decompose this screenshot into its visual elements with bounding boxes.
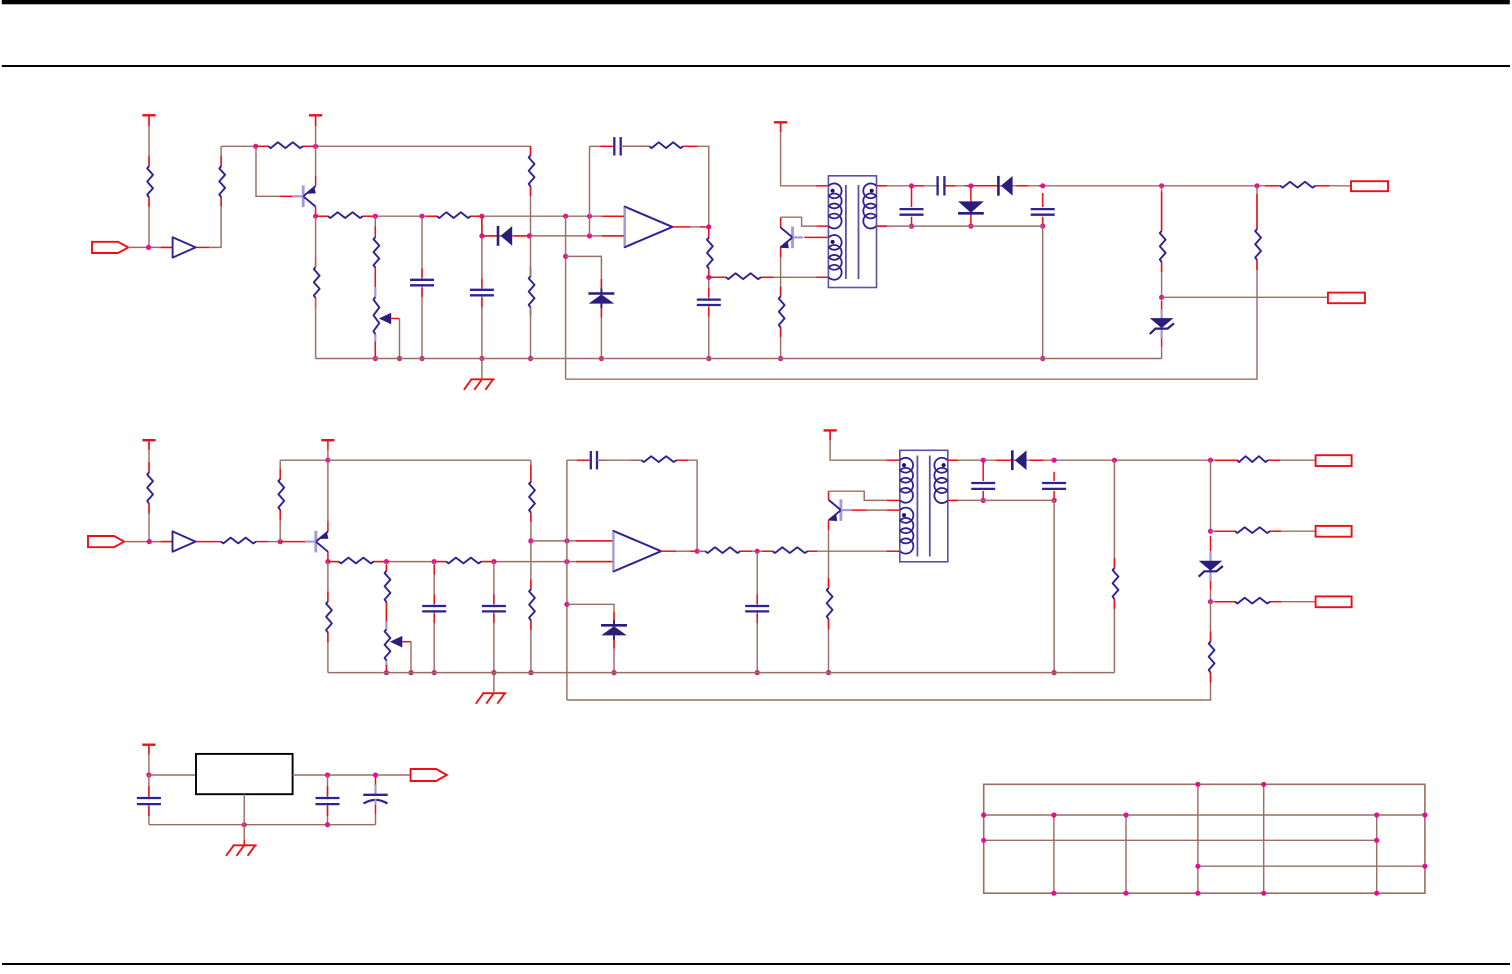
- wire R8 branch: [530, 236, 532, 359]
- wire top rail to R6 branch: [221, 146, 530, 236]
- junction reg gnd: [242, 822, 247, 827]
- wire Q4 base: [852, 509, 900, 511]
- resistor R29: [1112, 568, 1118, 599]
- junction grid: [981, 838, 986, 843]
- wire Q2 base: [804, 236, 829, 238]
- pins secondary2: [947, 459, 1280, 461]
- diode D1: [498, 226, 512, 246]
- wire pot2 branch: [385, 562, 387, 673]
- pins U3: [161, 541, 221, 543]
- wire GND1 stem: [481, 359, 483, 380]
- wire R16 top: [315, 216, 317, 267]
- junction feedback out: [1159, 295, 1164, 300]
- zener diode DZ2: [1150, 309, 1174, 338]
- wire C11 branch: [756, 551, 758, 672]
- pin U4 -in: [576, 561, 613, 563]
- pins R5: [426, 215, 482, 217]
- pin U2 out: [672, 226, 708, 228]
- buffer U3: [173, 531, 196, 551]
- resistor R30: [1237, 456, 1268, 462]
- wire secondary bottom net: [876, 226, 1043, 358]
- op-amp U4: [613, 531, 661, 572]
- junction R5 right: [479, 214, 484, 219]
- wire zener branch 2: [567, 604, 614, 672]
- pin U4 +in: [576, 540, 613, 542]
- ground GND1: [464, 379, 495, 390]
- wire grid H2: [984, 814, 1425, 816]
- voltage regulator U5: [196, 754, 293, 794]
- wire feedback left 2: [567, 459, 591, 461]
- capacitor C14: [316, 798, 340, 804]
- wire feedback left: [590, 145, 615, 147]
- pin U4 out: [660, 550, 705, 552]
- resistor R10: [707, 238, 713, 269]
- resistor R26: [705, 547, 740, 553]
- junction C9 bottom: [491, 670, 496, 675]
- pins R32: [1215, 601, 1281, 603]
- junction rail gnd: [479, 356, 484, 361]
- junction C8 top: [432, 559, 437, 564]
- wire ground rail top circuit: [316, 358, 1162, 360]
- pins R2: [220, 156, 222, 206]
- wire grid H3: [984, 839, 1377, 841]
- wire C16 branch: [148, 775, 150, 825]
- resistor R5: [437, 212, 471, 218]
- wire Q1 collector: [315, 146, 317, 175]
- junction DZ1 bottom: [599, 356, 604, 361]
- capacitor C6: [900, 209, 924, 215]
- junction grid: [1123, 812, 1128, 817]
- wire feedback vertical: [589, 146, 591, 236]
- capacitor C15 (polarized): [363, 795, 387, 805]
- capacitor C8: [422, 606, 446, 611]
- junction noninv 2: [528, 538, 533, 543]
- junction R10 bottom: [706, 275, 711, 280]
- pins C14: [327, 786, 329, 816]
- potentiometer RV2: [384, 629, 402, 660]
- wire grid V4: [1197, 784, 1199, 893]
- wire C14 branch: [327, 775, 329, 825]
- ground GND2: [476, 693, 507, 704]
- resistor R13: [1159, 231, 1165, 262]
- resistor R4: [328, 212, 363, 218]
- junction grid: [1051, 891, 1056, 896]
- transistor Q2: [780, 227, 803, 249]
- junction zener tee: [563, 254, 568, 259]
- pin VCC2: [315, 115, 317, 126]
- wire R33 branch: [567, 602, 1211, 700]
- wire VCC4 to input node 2: [148, 440, 150, 541]
- pins R26 R27: [740, 550, 900, 552]
- pin Q1 base: [280, 195, 293, 197]
- junction C9 top: [491, 559, 496, 564]
- wire GND3 stem: [243, 825, 245, 846]
- resistor R16: [313, 267, 319, 298]
- wire C1 branch: [421, 216, 423, 358]
- junction C4 bottom: [706, 356, 711, 361]
- wire VCC7: [148, 745, 150, 775]
- connector J3: [1316, 455, 1352, 466]
- capacitor C13: [1042, 483, 1066, 489]
- wire reg in: [149, 774, 196, 776]
- junction C8 bottom: [432, 670, 437, 675]
- pins U1: [161, 246, 209, 248]
- capacitor C10: [591, 451, 597, 469]
- junction secondary2 gnd: [1052, 670, 1057, 675]
- pins C4: [708, 288, 710, 316]
- resistor R31: [1235, 527, 1270, 533]
- wire pot branch: [374, 216, 376, 358]
- junction grid: [1195, 782, 1200, 787]
- wire C13 branch: [1053, 472, 1055, 501]
- junction C14 bottom: [325, 822, 330, 827]
- capacitor C2: [470, 290, 494, 296]
- wire drive net 2: [697, 550, 900, 552]
- wire U4 out: [676, 550, 690, 552]
- wire drive net: [709, 276, 829, 278]
- resistor R24: [529, 589, 535, 620]
- pins C11: [756, 595, 758, 624]
- junction tap2: [1208, 599, 1213, 604]
- wire reg out: [293, 774, 411, 776]
- resistor R18: [221, 538, 256, 544]
- ground GND3: [226, 845, 257, 856]
- resistor R19: [278, 479, 284, 510]
- pins R10: [708, 227, 710, 277]
- pins RV2 wiper ends: [385, 621, 387, 665]
- capacitor C3: [614, 137, 620, 155]
- wire VCC2: [315, 115, 317, 146]
- wire feedback right: [697, 146, 709, 227]
- pins secondary: [876, 185, 1329, 187]
- junction D2 bottom: [968, 224, 973, 229]
- junction Q3 emitter: [325, 559, 330, 564]
- junction D2 top: [968, 183, 973, 188]
- junction U4 output: [695, 549, 700, 554]
- input port P1: [92, 242, 128, 253]
- pins R34: [327, 592, 329, 643]
- capacitor C7: [1031, 209, 1055, 215]
- junction grid: [1261, 891, 1266, 896]
- junction secondary gnd: [1040, 356, 1045, 361]
- wire grid V2: [1053, 815, 1055, 893]
- junction U2 output: [706, 224, 711, 229]
- wire grid H4: [1198, 865, 1425, 867]
- wire C10-R25: [597, 459, 642, 461]
- input port P2: [88, 536, 124, 547]
- junction grid: [1195, 864, 1200, 869]
- junction C1 top: [419, 214, 424, 219]
- power symbol VCC6: [824, 429, 837, 431]
- pins RV1 wiper ends: [374, 287, 376, 341]
- wire input node: [128, 246, 172, 248]
- resistor R8: [528, 276, 534, 307]
- wire C3-R9: [621, 145, 650, 147]
- junction R15 top: [1254, 183, 1259, 188]
- wire input node 2: [124, 541, 172, 543]
- wire R16 bottom: [315, 298, 317, 359]
- wire rail2 left: [327, 562, 329, 673]
- footer rule: [2, 963, 1510, 965]
- pin T2 pin4: [947, 499, 958, 501]
- pins C3 R9: [600, 145, 697, 147]
- wire C8 branch: [433, 562, 435, 673]
- junction Q1 emitter: [313, 214, 318, 219]
- resistor R32: [1235, 598, 1270, 604]
- junction R12 bottom: [778, 356, 783, 361]
- wire DZ2 branch: [1161, 301, 1163, 359]
- resistor R1: [147, 166, 153, 197]
- power symbol VCC7: [142, 744, 155, 746]
- resistor R20: [339, 558, 374, 564]
- resistor R6: [373, 237, 379, 267]
- pins R16: [315, 257, 317, 308]
- junction feedback noninv: [587, 214, 592, 219]
- title bar: [2, 0, 1510, 4]
- junction grid: [1195, 891, 1200, 896]
- junction C5 top: [909, 183, 914, 188]
- wire RV1 wiper: [391, 319, 399, 359]
- wire ground rail 2: [328, 672, 1115, 674]
- zener diode DZ3: [601, 620, 627, 640]
- wire D2 branch: [970, 187, 972, 226]
- wire output node to tap1: [1210, 460, 1212, 531]
- resistor R34: [326, 602, 332, 633]
- junction grid: [1261, 782, 1266, 787]
- junction C11 bottom: [755, 670, 760, 675]
- diode D4: [1012, 450, 1026, 470]
- wire VCC3 to T1: [781, 122, 816, 186]
- junction zener tee 2: [564, 602, 569, 607]
- wire C7 branch: [1042, 193, 1044, 226]
- diode D3: [998, 176, 1012, 196]
- wire inverting input net: [482, 235, 625, 237]
- wire grid V3: [1125, 815, 1127, 893]
- connector J1: [1351, 181, 1388, 191]
- wire return net: [566, 186, 1257, 379]
- resistor R21: [446, 558, 481, 564]
- junction C6 bottom: [909, 224, 914, 229]
- diode D2: [958, 201, 984, 213]
- junction C7 bottom: [1040, 224, 1045, 229]
- wire output sense vertical: [565, 216, 567, 379]
- wire R29 branch: [1113, 460, 1115, 672]
- connector J5: [1316, 596, 1352, 607]
- wire VCC1 to input node: [148, 115, 150, 247]
- wire secondary top net: [876, 185, 1351, 187]
- pins R20: [328, 561, 387, 563]
- wire reg gnd pin: [243, 794, 245, 825]
- wire grid V6: [1376, 815, 1378, 893]
- capacitor C1: [410, 280, 434, 286]
- resistor R11: [726, 273, 761, 279]
- junction C7 top: [1040, 183, 1045, 188]
- pins R3: [256, 145, 316, 147]
- capacitor C16: [137, 798, 161, 804]
- resistor R17: [147, 473, 153, 504]
- pins R15: [1256, 194, 1258, 270]
- junction grid: [1374, 838, 1379, 843]
- power symbol VCC5: [321, 439, 334, 441]
- junction wiper2 bottom: [408, 670, 413, 675]
- pins R13: [1161, 192, 1163, 273]
- junction reg input: [146, 772, 151, 777]
- transistor Q3: [305, 531, 328, 553]
- wire feedback vertical 2: [566, 460, 568, 700]
- junction grid: [1422, 812, 1427, 817]
- pins R1: [148, 115, 150, 207]
- wire RV2 wiper: [402, 642, 411, 673]
- wire DZ4: [1210, 536, 1212, 602]
- wire tap2 to J5: [1211, 601, 1316, 603]
- wire Q1 base: [256, 146, 282, 196]
- pins R19: [279, 469, 281, 520]
- wire GND2 stem: [493, 673, 495, 694]
- wire VCC6 to T2: [830, 430, 886, 460]
- pins DZ3: [613, 612, 615, 649]
- transistor Q4: [828, 499, 851, 521]
- pins C9: [493, 595, 495, 624]
- net grid outer rectangle: [984, 784, 1425, 893]
- junction C1 bottom: [419, 356, 424, 361]
- wire reg ground line: [149, 824, 376, 826]
- resistor R12: [778, 297, 784, 328]
- junction VCC5 node: [325, 458, 330, 463]
- pins T2 pin1: [830, 430, 900, 460]
- junction R24 bottom: [528, 670, 533, 675]
- pins RV1: [374, 226, 376, 356]
- connector J4: [1316, 526, 1352, 537]
- pin T1 pin4: [876, 225, 887, 227]
- wire Q3 emitter: [327, 552, 329, 562]
- capacitor C12: [971, 483, 995, 489]
- wire secondary2 top net: [947, 459, 1315, 461]
- wire C9 branch: [493, 562, 495, 673]
- junction C15 top: [373, 772, 378, 777]
- op-amp U2: [625, 207, 673, 248]
- wire top rail 2 left: [280, 459, 328, 461]
- junction zener branch top: [563, 214, 568, 219]
- transistor Q1: [293, 186, 316, 208]
- power symbol VCC4: [142, 439, 155, 441]
- pins Q1: [315, 176, 317, 217]
- wire Q2 emitter: [780, 248, 782, 359]
- pins R11: [709, 276, 829, 278]
- junction DZ3 bottom: [611, 670, 616, 675]
- zener diode DZ1: [588, 289, 614, 309]
- resistor R28: [826, 588, 832, 619]
- pins R4: [316, 215, 376, 217]
- resistor R9: [649, 142, 683, 148]
- pins C2: [481, 216, 483, 307]
- pins R21: [437, 561, 494, 563]
- junction C13 bottom: [1052, 498, 1057, 503]
- junction wiper bottom: [397, 356, 402, 361]
- capacitor C9: [482, 606, 506, 611]
- junction C14 top: [325, 772, 330, 777]
- junction Q3 base node: [278, 539, 283, 544]
- junction diode anode: [479, 233, 484, 238]
- junction feedback inv: [587, 233, 592, 238]
- junction D1 cathode: [527, 233, 532, 238]
- pin VCC7: [148, 745, 150, 755]
- junction input node: [146, 245, 151, 250]
- power symbol VCC3: [774, 121, 787, 123]
- capacitor C5: [938, 176, 945, 195]
- junction grid: [1422, 864, 1427, 869]
- wire to J2: [1162, 296, 1328, 298]
- resistor R3: [268, 142, 303, 148]
- wire inverting net 2: [328, 561, 614, 563]
- pins R29: [1113, 558, 1115, 609]
- junction pot2 top: [384, 559, 389, 564]
- wire top rail 2: [328, 459, 531, 461]
- junction grid: [1374, 812, 1379, 817]
- power symbol VCC2: [309, 114, 322, 116]
- wire secondary2 bottom net: [947, 500, 1054, 672]
- resistor R23: [529, 482, 535, 513]
- wire R13 branch: [1161, 186, 1163, 297]
- pins R7 R8: [530, 146, 532, 317]
- capacitor C11: [745, 606, 769, 611]
- junction R13 top: [1159, 183, 1164, 188]
- pins C16: [148, 786, 150, 816]
- pin Q3 base: [281, 541, 306, 543]
- junction grid: [1374, 891, 1379, 896]
- zener diode DZ4: [1199, 552, 1223, 581]
- resistor R7: [528, 155, 534, 186]
- junction C11 top: [755, 549, 760, 554]
- junction output node A: [1208, 458, 1213, 463]
- wire feedback right 2: [688, 460, 697, 551]
- connector J2: [1328, 293, 1365, 304]
- resistor R15: [1255, 229, 1261, 260]
- wire VCC5: [327, 440, 329, 460]
- wire Q4 emitter: [828, 520, 830, 672]
- wire C5 branch: [911, 187, 913, 226]
- junction grid: [1051, 812, 1056, 817]
- pins T1 pin1: [781, 122, 829, 186]
- junction grid: [981, 812, 986, 817]
- junction input node 2: [147, 539, 152, 544]
- pins DZ1: [600, 279, 602, 317]
- buffer U1: [173, 237, 196, 257]
- pins C8: [433, 565, 435, 623]
- pins C1: [421, 269, 423, 298]
- junction R3 left: [253, 144, 258, 149]
- pin U2 +in: [602, 215, 625, 217]
- header rule: [2, 65, 1510, 67]
- capacitor C4: [697, 300, 721, 305]
- wire C2 branch: [481, 216, 483, 358]
- power symbol VCC1: [142, 114, 155, 116]
- pins R17: [148, 440, 150, 513]
- wire Q3 collector: [327, 460, 329, 531]
- resistor R27: [773, 547, 808, 553]
- wire noninverting input net: [316, 215, 625, 217]
- junction grid: [1123, 891, 1128, 896]
- wire Q4 collector: [829, 491, 900, 500]
- wire noninverting net 2: [531, 540, 614, 542]
- pins R31: [1215, 530, 1281, 532]
- resistor R2: [219, 166, 225, 197]
- wire Q2 collector: [781, 217, 829, 227]
- wire tap1 to J4: [1211, 530, 1316, 532]
- wire C12 branch: [982, 462, 984, 501]
- junction pot top: [373, 214, 378, 219]
- resistor R25: [642, 456, 677, 462]
- junction R8 bottom: [528, 356, 533, 361]
